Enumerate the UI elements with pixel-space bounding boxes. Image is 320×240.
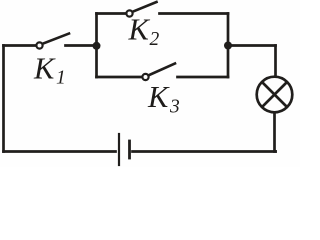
switch K3 pivot [142, 74, 148, 80]
svg-text:1: 1 [56, 68, 66, 89]
switch K3 lever [149, 64, 175, 76]
battery short plate [128, 141, 131, 158]
svg-text:K: K [128, 12, 151, 46]
wire: bottom branch left segment to switch K3 [97, 76, 142, 79]
switch K1 pivot [36, 42, 42, 48]
switch K2 lever [133, 2, 157, 12]
wire: node B to lamp drop [228, 44, 276, 47]
lamp L1 circle [257, 77, 293, 113]
label K1 [33, 52, 66, 89]
wire: parallel-section right rail [227, 14, 230, 78]
svg-text:K: K [147, 80, 170, 114]
lamp L1 cross stroke 2 [262, 82, 287, 107]
wire: top left segment to switch K1 [4, 44, 36, 47]
wire: bottom left segment [4, 150, 116, 153]
wire: right rail above lamp [274, 46, 277, 77]
wire: top branch right segment [160, 12, 229, 15]
svg-text:3: 3 [169, 96, 180, 117]
switch K2 pivot [126, 10, 132, 16]
battery long plate [118, 134, 120, 165]
wire: K1 to node A [66, 44, 97, 47]
lamp L1 cross stroke 1 [262, 82, 287, 107]
svg-text:2: 2 [150, 29, 160, 50]
node B junction dot [224, 42, 232, 50]
wire: below lamp to bottom rail [275, 113, 276, 152]
wire: bottom branch right segment [178, 76, 229, 79]
wire: top branch left segment to switch K2 [97, 12, 126, 15]
switch K1 lever [43, 34, 69, 44]
node A junction dot [93, 42, 101, 50]
wire: bottom right segment [133, 150, 276, 153]
label K2 [128, 12, 160, 50]
wire: left rail [2, 46, 5, 152]
label K3 [147, 80, 180, 118]
wire: parallel-section left rail [95, 14, 98, 78]
svg-text:K: K [33, 52, 56, 86]
